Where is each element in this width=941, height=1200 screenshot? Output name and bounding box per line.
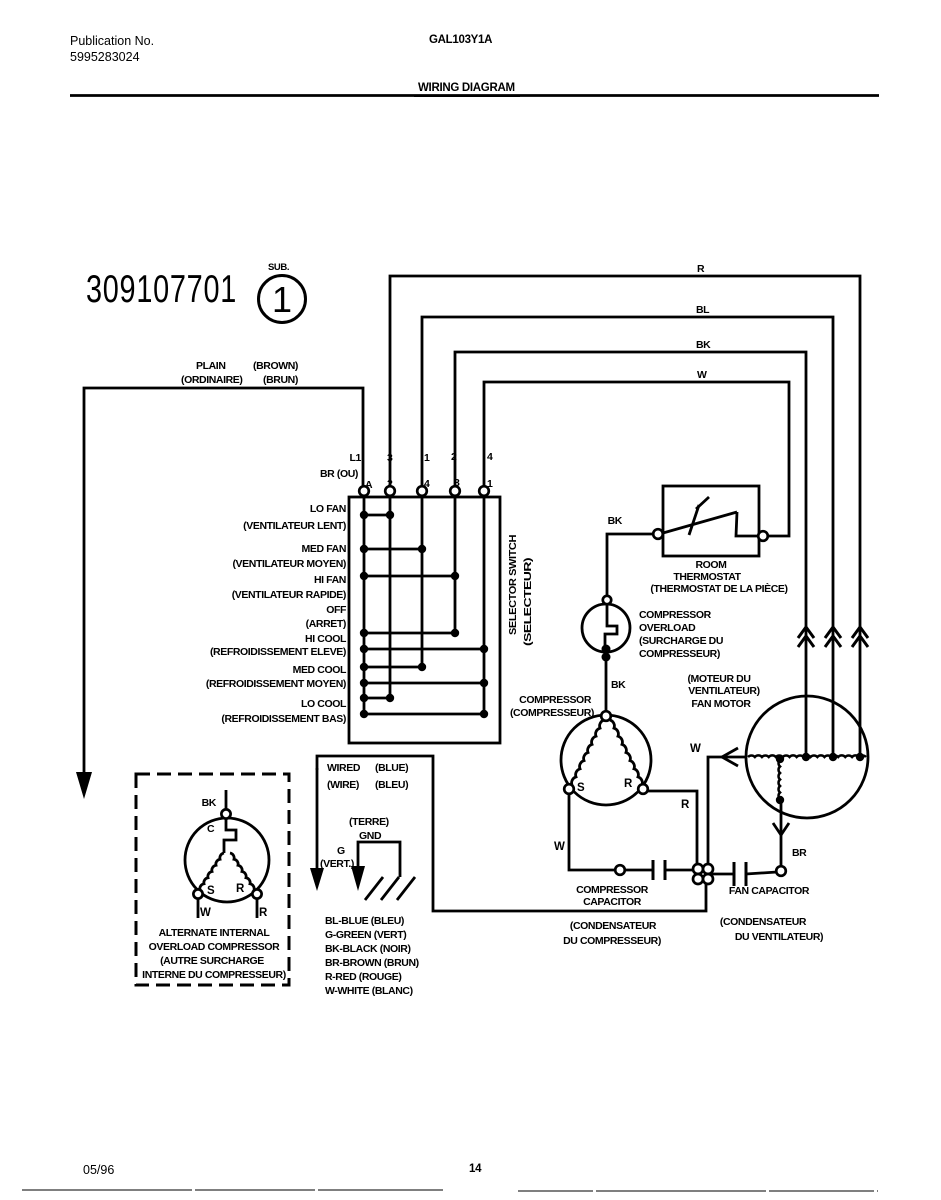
svg-text:(BLEU): (BLEU) [375,779,408,791]
svg-text:MED COOL: MED COOL [293,664,347,676]
svg-text:5995283024: 5995283024 [70,50,140,64]
svg-text:SUB.: SUB. [268,262,289,273]
wire: BR fan start winding lead [780,801,783,866]
svg-text:14: 14 [469,1163,482,1175]
wire: brown line-cord conductor to selector L1 [84,388,363,775]
svg-text:S: S [577,782,585,794]
pin: thermostat left terminal [653,529,663,539]
svg-text:(VENTILATEUR RAPIDE): (VENTILATEUR RAPIDE) [232,589,346,601]
connector: quick-disconnect chevrons on BK lead [798,627,814,647]
label: COMPRESSOR CAPACITOR [576,884,649,908]
svg-text:(ARRET): (ARRET) [306,618,346,630]
label: selector switch terminals bottom row A 2 4 3 1 [365,477,493,491]
wire: W compressor start to capacitor [569,794,614,870]
arrow: brown wire to power cord (down) [76,772,92,799]
svg-text:MED FAN: MED FAN [302,543,346,555]
wire: selector internal column 2 [389,497,392,698]
label: selector position MED COOL [206,664,347,690]
svg-text:R: R [259,907,268,919]
label: COMPRESSOR (COMPRESSEUR) [510,694,594,719]
svg-text:G: G [337,845,345,857]
connector: quick-disconnect chevrons on BL lead [825,627,841,647]
wire: green ground conductor [358,842,400,877]
connector: quick-disconnect chevrons on R lead [852,627,868,647]
svg-text:OVERLOAD: OVERLOAD [639,622,696,634]
label: WIRED (BLUE) / (WIRE) (BLEU) [327,762,408,791]
selector switch SW1 enclosure [349,497,500,743]
svg-text:OFF: OFF [326,604,347,616]
wire: compressor capacitor to junction block [665,869,697,872]
svg-text:3: 3 [387,452,393,464]
wire: blue net BL from selector terminal 1 to fan motor med tap [422,317,833,757]
label: ALTERNATE INTERNAL OVERLOAD COMPRESSOR text [142,927,286,981]
svg-text:R-RED (ROUGE): R-RED (ROUGE) [325,971,401,983]
wire: black net BK from selector terminal 2 to fan motor lo tap [455,352,806,757]
label: (TERRE) GND [349,816,389,842]
svg-text:VENTILATEUR): VENTILATEUR) [688,685,759,697]
svg-text:1: 1 [272,279,292,320]
svg-text:PLAIN: PLAIN [196,360,226,372]
svg-text:4: 4 [487,451,493,463]
footer rule (broken) [22,1190,878,1191]
svg-text:(THERMOSTAT DE LA PIÈCE): (THERMOSTAT DE LA PIÈCE) [650,582,787,595]
label: G (VERT.) [320,845,354,870]
label: selector position LO FAN [243,503,346,532]
svg-text:(MOTEUR DU: (MOTEUR DU [687,673,750,685]
thermostat bimetal actuator mark [689,497,709,535]
svg-text:GAL103Y1A: GAL103Y1A [429,34,492,46]
room thermostat box [663,486,759,556]
svg-text:(COMPRESSEUR): (COMPRESSEUR) [510,707,594,719]
svg-text:ROOM: ROOM [695,559,727,571]
pin: fan capacitor terminal [776,866,786,876]
substitution revision circle 1 (SUB.) [259,262,306,323]
label: selector position HI COOL [210,633,347,658]
svg-text:(AUTRE SURCHARGE: (AUTRE SURCHARGE [160,955,264,967]
compressor motor [561,711,651,805]
wire: selector switch contact row 8 [360,694,394,702]
svg-text:(BRUN): (BRUN) [263,374,298,386]
svg-text:BL-BLUE (BLEU): BL-BLUE (BLEU) [325,915,404,927]
svg-text:DU VENTILATEUR): DU VENTILATEUR) [735,931,823,943]
wire: selector switch contact row 6 [360,663,426,671]
svg-text:(VENTILATEUR MOYEN): (VENTILATEUR MOYEN) [232,558,346,570]
wire: selector internal column 1 [483,497,486,714]
wire: blue neutral from junction along bottom [317,756,706,911]
fan motor [746,696,868,818]
svg-text:(ORDINAIRE): (ORDINAIRE) [181,374,243,386]
arrow: BR lead direction (down) [773,823,789,835]
svg-text:BR: BR [792,847,807,859]
header: WIRING DIAGRAM title [414,82,520,96]
svg-text:2: 2 [451,451,457,463]
pin: selector terminal 1/4 [417,486,427,496]
svg-text:(CONDENSATEUR: (CONDENSATEUR [720,916,807,928]
svg-text:ALTERNATE INTERNAL: ALTERNATE INTERNAL [159,927,271,939]
wire: R compressor run to junction block [647,791,697,864]
label: selector position HI FAN [232,574,346,601]
svg-text:W: W [200,907,211,919]
svg-text:C: C [207,823,215,835]
wire: selector switch contact row 7 [360,679,488,687]
svg-text:(WIRE): (WIRE) [327,779,359,791]
wire: BK overload to compressor common [605,657,608,711]
svg-text:BR-BROWN (BRUN): BR-BROWN (BRUN) [325,957,419,969]
svg-text:HI FAN: HI FAN [314,574,346,586]
wire: alternate compressor start lead W [197,899,200,918]
label: (CONDENSATEUR DU COMPRESSEUR) [563,920,661,947]
svg-text:BR (OU): BR (OU) [320,468,358,480]
label: PLAIN (BROWN) / (ORDINAIRE) (BRUN) [181,360,298,386]
label: selector switch terminals top row L1 3 1 2 4 [350,451,493,464]
svg-text:HI COOL: HI COOL [305,633,347,645]
svg-text:(VENTILATEUR LENT): (VENTILATEUR LENT) [243,520,346,532]
capacitor: fan capacitor [734,862,746,886]
wire: white net W from selector terminal 4 to thermostat [484,382,789,536]
pin: selector terminal 3/2 [385,486,395,496]
legend: wire color code [325,915,419,997]
svg-text:LO COOL: LO COOL [301,698,347,710]
svg-text:(BROWN): (BROWN) [253,360,298,372]
svg-text:DU COMPRESSEUR): DU COMPRESSEUR) [563,935,661,947]
alternate internal overload compressor dashed enclosure [136,774,289,985]
wire: selector switch contact row 4 [360,629,459,637]
label: ROOM THERMOSTAT (THERMOSTAT DE LA PIECE) [650,559,787,595]
wire: alternate compressor run lead R [256,899,259,918]
svg-text:THERMOSTAT: THERMOSTAT [673,571,741,583]
pin: selector terminal 4/1 [479,486,489,496]
svg-text:R: R [236,883,245,895]
svg-text:(SURCHARGE DU: (SURCHARGE DU [639,635,723,647]
alternate compressor: BK lead [225,790,228,810]
junction: four-terminal connector block [693,864,713,884]
svg-text:BK: BK [611,679,626,691]
svg-text:OVERLOAD COMPRESSOR: OVERLOAD COMPRESSOR [149,941,280,953]
wire: selector internal column A [363,497,366,714]
label: (CONDENSATEUR DU VENTILATEUR) [720,916,823,943]
pin: selector terminal 2/3 [450,486,460,496]
arrow: green wire to power cord (down) [351,866,365,891]
header rule line [70,94,879,97]
svg-text:(REFROIDISSEMENT ELEVE): (REFROIDISSEMENT ELEVE) [210,646,346,658]
svg-text:R: R [624,778,633,790]
pin: compressor capacitor lead terminal [615,865,625,875]
svg-text:R: R [681,799,690,811]
svg-text:L1: L1 [350,452,362,464]
pin: selector terminal L1/A [359,486,369,496]
svg-text:CAPACITOR: CAPACITOR [583,896,642,908]
header: publication number [70,34,154,64]
arrow: blue wire to power cord (down) [310,868,324,891]
svg-text:W: W [697,369,707,381]
arrow: W lead direction (left) [722,748,738,766]
label: COMPRESSOR OVERLOAD (SURCHARGE DU COMPRESSEUR) [639,609,723,660]
svg-text:309107701: 309107701 [86,268,237,311]
wire: selector internal column 4 [421,497,424,667]
svg-text:(CONDENSATEUR: (CONDENSATEUR [570,920,657,932]
wire: junction to fan capacitor [712,873,733,876]
svg-text:(REFROIDISSEMENT MOYEN): (REFROIDISSEMENT MOYEN) [206,678,346,690]
svg-text:W-WHITE (BLANC): W-WHITE (BLANC) [325,985,413,997]
label: (MOTEUR DU VENTILATEUR) FAN MOTOR [687,673,759,710]
svg-text:COMPRESSOR: COMPRESSOR [576,884,649,896]
svg-text:COMPRESSOR: COMPRESSOR [519,694,592,706]
wire: capacitor terminal to plate [625,869,652,872]
svg-text:SELECTOR SWITCH: SELECTOR SWITCH [507,535,519,635]
wire: fan capacitor to BR terminal [746,872,777,874]
svg-text:FAN CAPACITOR: FAN CAPACITOR [729,885,810,897]
svg-text:1: 1 [424,452,430,464]
svg-text:05/96: 05/96 [83,1163,114,1177]
wire: selector switch contact row 1 [360,511,394,519]
wire: selector internal column 3 [454,497,457,633]
svg-text:(SELECTEUR): (SELECTEUR) [522,558,534,646]
compressor overload protector [582,596,630,662]
svg-text:W: W [554,841,565,853]
capacitor: compressor capacitor [653,860,665,880]
svg-text:GND: GND [359,830,382,842]
svg-text:Publication No.: Publication No. [70,34,154,48]
svg-text:(REFROIDISSEMENT BAS): (REFROIDISSEMENT BAS) [221,713,346,725]
svg-text:S: S [207,885,215,897]
wire: selector switch contact row 3 [360,572,459,580]
svg-text:(TERRE): (TERRE) [349,816,389,828]
svg-text:FAN MOTOR: FAN MOTOR [691,698,751,710]
wire: selector switch contact row 5 [360,645,488,653]
label: selector position OFF [306,604,347,630]
svg-text:(VERT.): (VERT.) [320,858,354,870]
svg-text:WIRING DIAGRAM: WIRING DIAGRAM [418,82,515,94]
svg-text:COMPRESSOR: COMPRESSOR [639,609,712,621]
wire: selector switch contact row 9 [360,710,488,718]
wire: BK thermostat to overload [607,534,653,596]
svg-text:BL: BL [696,304,710,316]
svg-text:R: R [697,263,705,275]
svg-text:BK: BK [696,339,711,351]
label: selector position MED FAN [232,543,346,570]
wire: selector switch contact row 2 [360,545,426,553]
alternate compressor motor with internal overload [185,809,269,902]
svg-text:W: W [690,743,701,755]
svg-text:WIRED: WIRED [327,762,361,774]
thermostat switch blade [663,512,759,536]
label: selector position LO COOL [221,698,347,725]
wire: red net R from selector terminal 3 to fan motor hi tap [390,276,860,757]
svg-text:LO FAN: LO FAN [310,503,346,515]
svg-text:G-GREEN (VERT): G-GREEN (VERT) [325,929,406,941]
svg-text:BK: BK [202,797,217,809]
svg-text:(BLUE): (BLUE) [375,762,408,774]
svg-text:COMPRESSEUR): COMPRESSEUR) [639,648,720,660]
svg-text:BK-BLACK (NOIR): BK-BLACK (NOIR) [325,943,411,955]
ground: chassis ground symbol [365,877,415,900]
label: SELECTOR SWITCH (SELECTEUR) rotated [507,535,534,646]
svg-text:INTERNE DU COMPRESSEUR): INTERNE DU COMPRESSEUR) [142,969,286,981]
wire: W fan motor common to junction [708,757,746,864]
pin: thermostat right terminal [758,531,768,541]
svg-text:BK: BK [608,515,623,527]
